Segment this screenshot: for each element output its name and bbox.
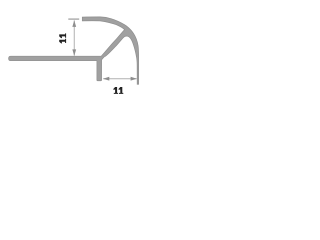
vertical dimension arrowhead down — [72, 49, 76, 56]
horizontal dimension line — [103, 78, 136, 80]
label 11 (vertical, rotated) — [59, 33, 66, 43]
label 11 (horizontal) — [113, 87, 123, 94]
horizontal dimension arrowhead left — [103, 77, 109, 81]
profile cross-section (base flange, vertical leg, diagonal web, top flange and curved face) — [9, 17, 139, 84]
dimension tick (top extension line) — [68, 18, 79, 20]
horizontal dimension arrowhead right — [131, 77, 137, 81]
vertical dimension line — [73, 20, 75, 55]
vertical dimension arrowhead up — [72, 20, 76, 27]
